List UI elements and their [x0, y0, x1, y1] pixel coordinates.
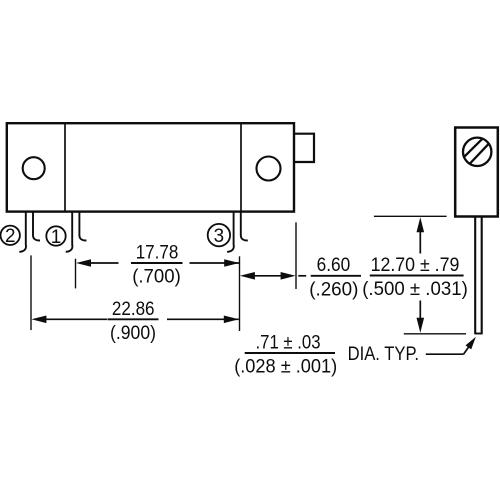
svg-text:12.70 ± .79: 12.70 ± .79: [371, 255, 460, 276]
pin 3 lead: [227, 212, 248, 252]
pin label 1: [46, 226, 65, 248]
extension line pin 3: [239, 256, 241, 331]
right section divider: [240, 123, 242, 211]
side view lead wire: [474, 217, 482, 334]
body outline (top view): [7, 123, 294, 211]
svg-text:1: 1: [51, 227, 62, 248]
screw slot circle: [463, 138, 491, 166]
svg-text:6.60: 6.60: [317, 255, 351, 276]
svg-text:(.500 ± .031): (.500 ± .031): [362, 279, 468, 300]
svg-text:2: 2: [5, 226, 16, 247]
svg-text:DIA. TYP.: DIA. TYP.: [348, 344, 419, 365]
label DIA. TYP.: [348, 344, 419, 365]
pin label 3: [208, 224, 230, 247]
dimension 17.78 (.700): [76, 243, 239, 288]
svg-text:(.900): (.900): [110, 323, 156, 344]
svg-text:(.700): (.700): [132, 267, 181, 288]
svg-text:17.78: 17.78: [136, 243, 179, 264]
side tab: [295, 134, 314, 162]
extension line lead bottom: [404, 333, 466, 335]
side view body: [455, 128, 498, 217]
pin 1 lead: [66, 212, 87, 252]
svg-text:(.260): (.260): [309, 279, 358, 300]
right mounting hole: [257, 157, 281, 181]
dimension .71 ± .03 (.028 ± .001): [234, 333, 337, 378]
extension line body right: [295, 222, 297, 289]
dimension 6.60 (.260): [240, 255, 361, 301]
svg-text:22.86: 22.86: [112, 299, 155, 320]
svg-text:.71 ± .03: .71 ± .03: [256, 333, 321, 354]
svg-text:3: 3: [214, 226, 225, 247]
extension line pin 1: [75, 259, 77, 289]
dimension 22.86 (.900): [31, 299, 238, 344]
left section divider: [64, 123, 66, 211]
leader to lead diameter: [426, 337, 476, 354]
svg-text:(.028 ± .001): (.028 ± .001): [234, 357, 337, 378]
left mounting hole: [23, 157, 45, 179]
extension line pin 2: [30, 255, 32, 330]
pin label 2: [1, 226, 20, 248]
dimension 12.70 ± .79 (.500 ± .031): [362, 217, 468, 332]
extension line side body bottom: [374, 215, 447, 217]
pin 2 lead: [19, 212, 40, 252]
